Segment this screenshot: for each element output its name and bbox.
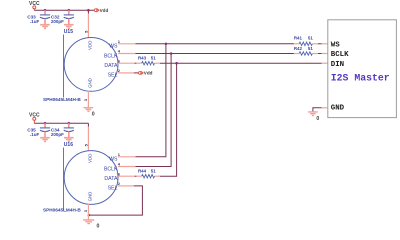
wire U16 SEL loop to ground — [88, 186, 142, 215]
svg-text:0: 0 — [316, 116, 319, 122]
wire U15 SEL to Vdd — [134, 72, 139, 74]
wire R42 to I2S master BCLK — [318, 53, 322, 55]
resistor R42 — [294, 52, 318, 56]
power connector Vdd (U15 SEL) — [138, 71, 152, 76]
svg-text:200pF: 200pF — [51, 132, 64, 137]
svg-text:GND: GND — [88, 78, 93, 88]
junction C34 to rail — [68, 122, 71, 125]
wire U16 DATA to R44 — [135, 175, 137, 177]
svg-text:BCLK: BCLK — [104, 166, 118, 172]
svg-text:51: 51 — [151, 169, 156, 174]
svg-text:SEL: SEL — [108, 186, 118, 192]
U15 SEL pin stub — [118, 72, 134, 74]
svg-text:51: 51 — [308, 35, 313, 40]
capacitor C33 — [40, 10, 50, 24]
resistor R44 — [136, 174, 160, 178]
wire WS net (U15 to R41) — [135, 43, 294, 45]
resistor R41 — [294, 42, 318, 46]
svg-text:VDD: VDD — [88, 154, 93, 163]
svg-text:R43: R43 — [138, 56, 147, 61]
wire DIN riser (R44 to DIN net) — [160, 63, 177, 176]
junction DIN riser — [175, 62, 178, 65]
svg-text:GND: GND — [88, 192, 93, 202]
svg-text:R41: R41 — [294, 35, 303, 40]
svg-text:R42: R42 — [294, 46, 303, 51]
resistor R43 — [136, 61, 160, 65]
junction WS riser — [165, 43, 168, 46]
C33 designator and value label — [27, 14, 39, 24]
svg-text:WS: WS — [109, 157, 118, 163]
I2S master block U? — [328, 20, 397, 118]
wire VDD stub to mic U15 — [87, 10, 89, 13]
svg-text:.1uF: .1uF — [30, 19, 40, 24]
svg-text:VDD: VDD — [88, 41, 93, 50]
R42 designator and value label — [294, 46, 313, 51]
I2S master GND pin stub — [322, 107, 328, 109]
U16 WS pin stub — [118, 156, 135, 158]
ground 0 under I2S master — [308, 112, 319, 122]
microphone U15 symbol — [64, 35, 119, 98]
wire Vdd rail (bottom) — [34, 122, 88, 124]
junction SEL loop to GND stub — [88, 214, 90, 216]
ground 0 under U16 — [83, 220, 99, 230]
svg-text:SEL: SEL — [108, 73, 118, 79]
wire BCLK net (U15 to R42) — [135, 53, 294, 55]
U15 BCLK pin stub — [118, 53, 135, 55]
R43 designator and value label — [138, 56, 156, 61]
U16 DATA pin stub — [118, 175, 135, 177]
C35 designator and value label — [27, 127, 39, 137]
capacitor C32 — [64, 10, 74, 24]
junction C32 to rail — [68, 9, 71, 12]
svg-text:GND: GND — [331, 104, 345, 112]
capacitor C34 — [64, 123, 74, 137]
svg-text:WS: WS — [109, 44, 118, 50]
power symbol VCC (top section) — [29, 1, 40, 10]
svg-text:Vdd: Vdd — [100, 8, 109, 13]
ground 0 under U15 — [84, 108, 95, 118]
power connector Vdd (top rail) — [94, 8, 108, 13]
svg-text:200pF: 200pF — [51, 19, 64, 24]
svg-text:I2S Master: I2S Master — [331, 72, 390, 83]
svg-text:51: 51 — [308, 46, 313, 51]
svg-text:U15: U15 — [64, 29, 73, 35]
wire WS riser (U16 to WS net) — [135, 44, 166, 157]
wire I2S master GND to ground — [313, 108, 322, 112]
svg-text:WS: WS — [331, 41, 340, 49]
U16 GND pin stub — [87, 204, 89, 220]
svg-text:SPH0645LM4H-B: SPH0645LM4H-B — [43, 97, 81, 102]
R41 designator and value label — [294, 35, 313, 40]
junction VDD stub to rail — [87, 9, 90, 12]
svg-text:SPH0645LM4H-B: SPH0645LM4H-B — [43, 207, 81, 212]
ground under C34 — [64, 138, 74, 142]
wire DIN net (R43 to I2S master) — [160, 62, 322, 64]
wire R41 to I2S master WS — [318, 43, 322, 45]
wire Vdd rail (top) — [34, 9, 94, 11]
svg-text:0: 0 — [97, 224, 100, 230]
I2S master block pin stub BCLK — [322, 53, 328, 55]
wire BCLK riser (U16 to BCLK net) — [135, 54, 171, 167]
svg-text:51: 51 — [151, 56, 156, 61]
junction C35 to rail — [44, 122, 47, 125]
svg-text:BCLK: BCLK — [331, 51, 349, 59]
svg-text:.1uF: .1uF — [30, 132, 40, 137]
power symbol VCC (bottom section) — [29, 113, 40, 124]
R44 designator and value label — [138, 169, 156, 174]
U15 GND pin stub — [87, 91, 89, 107]
svg-text:BCLK: BCLK — [104, 53, 118, 59]
svg-text:U16: U16 — [64, 142, 73, 148]
svg-text:DATA: DATA — [104, 176, 118, 182]
U16 BCLK pin stub — [118, 166, 135, 168]
junction C33 to rail — [44, 9, 47, 12]
U16 SEL pin stub — [118, 185, 134, 187]
svg-text:0: 0 — [92, 111, 95, 117]
junction BCLK riser — [170, 52, 173, 55]
microphone U16 symbol — [64, 148, 119, 211]
svg-text:R44: R44 — [138, 169, 147, 174]
ground under C35 — [40, 138, 50, 142]
svg-text:DIN: DIN — [331, 61, 344, 69]
ground under C32 — [64, 25, 74, 29]
wire U15 DATA to R43 — [135, 62, 137, 64]
wire VDD stub to mic U16 — [87, 123, 89, 126]
U15 WS pin stub — [118, 43, 135, 45]
svg-text:Vdd: Vdd — [144, 71, 153, 76]
C34 designator and value label — [51, 127, 64, 137]
I2S master block pin stub DIN — [322, 62, 328, 64]
capacitor C35 — [40, 123, 50, 137]
I2S master block pin stub WS — [322, 43, 328, 45]
C32 designator and value label — [51, 14, 64, 24]
ground under C33 — [40, 25, 50, 29]
svg-text:DATA: DATA — [104, 63, 118, 69]
U15 DATA pin stub — [118, 62, 135, 64]
